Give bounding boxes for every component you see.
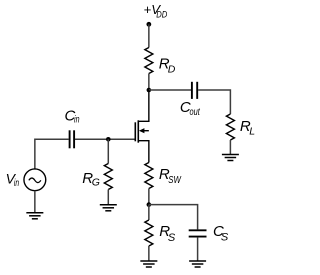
ground (CS) (189, 261, 206, 267)
wire RS to ground (148, 246, 150, 261)
svg-text:S: S (221, 232, 229, 244)
transistor Q1 source lead (138, 141, 149, 163)
ground (RL) (222, 155, 239, 161)
capacitor Cout (192, 82, 197, 99)
label RD (159, 56, 176, 76)
resistor RL (226, 114, 234, 140)
label RS (159, 223, 176, 244)
node G junction dot (106, 137, 111, 142)
wire CS to ground (197, 238, 199, 261)
capacitor Cin (70, 130, 75, 148)
wire VDD to RD (148, 24, 150, 47)
wire RL to ground (229, 140, 231, 155)
svg-text:L: L (249, 125, 255, 137)
wire node G to RG (107, 139, 109, 163)
wire Vin top (35, 139, 69, 169)
resistor RSW (145, 163, 153, 189)
label RSW (159, 166, 182, 186)
transistor Q1 NMOS gate bar (134, 122, 136, 141)
transistor Q1 body line (143, 130, 149, 132)
resistor RS (145, 220, 153, 246)
svg-text:S: S (168, 232, 176, 244)
wire RSW to node S (148, 189, 150, 205)
wire node S to CS (149, 205, 198, 230)
transistor Q1 NMOS channel bar (137, 120, 139, 142)
svg-text:in: in (74, 113, 80, 125)
label Vin (6, 171, 20, 190)
source Vin sine wave (29, 178, 41, 183)
svg-text:D: D (168, 64, 176, 76)
wire Cout to RL (198, 90, 230, 114)
svg-text:in: in (14, 177, 19, 189)
label CS (213, 223, 229, 243)
source Vin circle (24, 169, 46, 191)
power +VDD label (144, 2, 168, 20)
node D junction dot (147, 88, 152, 93)
wire Vin to ground (34, 191, 36, 213)
label Cout (180, 99, 201, 118)
svg-text:out: out (190, 106, 201, 118)
wire node D to Cout (149, 89, 191, 91)
wire Cin to gate (75, 138, 135, 140)
ground (Vin) (26, 213, 43, 219)
wire node S to RS (148, 205, 150, 220)
power +VDD terminal dot (146, 22, 151, 27)
resistor RG (104, 164, 112, 190)
wire RD to drain node (148, 74, 150, 91)
svg-text:DD: DD (156, 9, 167, 20)
capacitor CS (189, 230, 207, 236)
resistor RD (145, 48, 153, 74)
svg-text:G: G (92, 177, 100, 189)
node S junction dot (147, 202, 152, 207)
transistor Q1 drain lead (138, 90, 149, 121)
ground (RS) (140, 261, 157, 267)
label RL (240, 118, 255, 137)
label RG (82, 170, 100, 189)
label Cin (65, 108, 80, 126)
svg-text:SW: SW (168, 174, 181, 186)
transistor Q1 body arrow (139, 128, 145, 133)
ground (RG) (100, 205, 117, 211)
wire RG to ground (107, 190, 109, 205)
